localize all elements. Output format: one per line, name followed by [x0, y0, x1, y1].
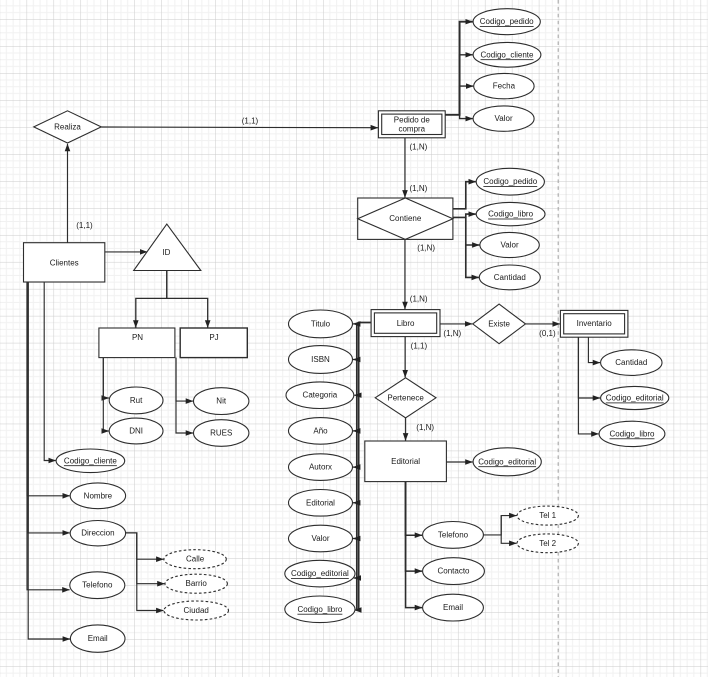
wire branch to Autorx [353, 466, 359, 468]
wire branch to Editorial attr [353, 502, 359, 504]
attribute Email of Clientes [70, 625, 125, 652]
svg-text:(1,N): (1,N) [443, 329, 461, 338]
wire Contiene to Codigo_libro [453, 214, 476, 217]
svg-text:RUES: RUES [210, 429, 232, 438]
svg-text:Tel 1: Tel 1 [539, 511, 556, 520]
svg-text:Codigo_libro: Codigo_libro [610, 429, 655, 438]
svg-text:Realiza: Realiza [54, 122, 81, 131]
wire Clientes to Nombre [27, 282, 70, 496]
svg-text:Valor: Valor [501, 241, 519, 250]
attribute Valor of Pedido [473, 106, 534, 131]
attribute DNI [109, 418, 163, 444]
wire Contiene to Codigo_pedido [453, 182, 476, 209]
attribute Email of Editorial [423, 594, 484, 621]
attribute Nit [194, 388, 249, 415]
wire Clientes to ID [105, 251, 147, 253]
wire Direccion to Ciudad [126, 533, 164, 611]
svg-text:Telefono: Telefono [82, 581, 113, 590]
attribute Fecha [474, 73, 534, 98]
key attribute Codigo_libro of Libro [285, 596, 355, 623]
wire Pedido to Contiene (1,N) [405, 138, 428, 198]
wire PN to DNI [103, 358, 109, 431]
wire Clientes to Telefono [27, 282, 70, 590]
entity PJ [180, 328, 247, 358]
svg-text:Barrio: Barrio [186, 579, 208, 588]
wire branch to Anio [353, 430, 359, 432]
wire Editorial to Email [406, 482, 423, 608]
multivalued attribute Calle [164, 550, 226, 569]
wire Pedido to Fecha [460, 86, 474, 115]
relationship Existe [473, 304, 526, 344]
wire branch to ISBN [353, 359, 359, 361]
key attribute Codigo_pedido of Contiene [476, 168, 544, 195]
wire Clientes to Email [28, 282, 70, 639]
wire PJ to Nit [176, 358, 193, 402]
svg-text:Codigo_cliente: Codigo_cliente [481, 50, 534, 59]
wire Pedido to Codigo_pedido [445, 22, 473, 115]
svg-text:Cantidad: Cantidad [615, 358, 647, 367]
svg-text:Año: Año [313, 426, 328, 435]
svg-text:Codigo_libro: Codigo_libro [488, 210, 533, 219]
svg-text:Email: Email [88, 634, 108, 643]
multivalued attribute Tel 1 [517, 506, 578, 525]
svg-text:compra: compra [398, 125, 425, 134]
svg-text:Calle: Calle [186, 555, 205, 564]
svg-text:Cantidad: Cantidad [494, 273, 526, 282]
multivalued attribute Barrio [165, 574, 227, 593]
attribute Nombre [70, 483, 125, 509]
svg-text:(1,1): (1,1) [76, 221, 93, 230]
svg-text:Codigo_pedido: Codigo_pedido [483, 177, 537, 186]
wire Libro to Existe (1,N) [440, 324, 472, 338]
entity Editorial [365, 441, 447, 482]
attribute ISBN [289, 346, 353, 374]
svg-text:Pertenece: Pertenece [387, 393, 424, 402]
wire Pertenece to Editorial (1,N) [406, 418, 435, 441]
svg-text:(1,N): (1,N) [410, 294, 428, 303]
wire Libro to Pertenece (1,1) [405, 337, 427, 378]
svg-text:Nit: Nit [216, 397, 227, 406]
attribute Telefono of Clientes [70, 572, 125, 599]
svg-text:Email: Email [443, 603, 463, 612]
multivalued attribute Ciudad [164, 601, 229, 620]
attribute Titulo [289, 310, 353, 338]
wire ID to PJ [167, 271, 208, 328]
multivalued attribute Tel 2 [517, 534, 578, 553]
svg-text:Inventario: Inventario [577, 319, 613, 328]
wire Clientes to Codigo_cliente [44, 282, 56, 461]
svg-text:Ciudad: Ciudad [184, 606, 209, 615]
svg-text:Titulo: Titulo [311, 319, 331, 328]
svg-text:Telefono: Telefono [438, 530, 469, 539]
attribute Cantidad of Inventario [601, 350, 662, 376]
svg-text:Codigo_libro: Codigo_libro [297, 605, 342, 614]
wire Direccion to Calle [126, 533, 164, 559]
identifier triangle ID [134, 224, 201, 270]
svg-text:Valor: Valor [311, 534, 329, 543]
page separator dashed line [557, 0, 559, 677]
svg-text:Fecha: Fecha [493, 82, 516, 91]
attribute Autorx [289, 454, 353, 481]
attribute Telefono of Editorial [423, 522, 484, 549]
wire Contiene to Valor [466, 217, 480, 245]
svg-text:ID: ID [162, 248, 170, 257]
svg-text:Valor: Valor [495, 114, 513, 123]
wire Existe to Inventario (0,1) [525, 324, 560, 338]
attribute Rut [109, 387, 163, 414]
attribute Editorial of Libro [289, 490, 353, 517]
attribute Anio [289, 418, 353, 445]
attribute Categoria [286, 382, 354, 409]
svg-text:PN: PN [132, 333, 143, 342]
wire Realiza to Pedido de compra (1,1) [101, 116, 378, 127]
wire branch to Titulo [353, 323, 359, 325]
key attribute Codigo_editorial of Editorial [473, 448, 541, 476]
svg-text:Codigo_pedido: Codigo_pedido [480, 17, 534, 26]
svg-text:Autorx: Autorx [309, 463, 332, 472]
wire branch to Valor attr [353, 538, 359, 540]
wire Editorial to Contacto [406, 482, 423, 571]
key attribute Codigo_pedido of Pedido [473, 9, 540, 35]
svg-text:Codigo_editorial: Codigo_editorial [291, 569, 349, 578]
svg-text:ISBN: ISBN [311, 355, 330, 364]
wire PJ to RUES [176, 358, 193, 433]
wire Contiene to Cantidad [466, 245, 479, 277]
attribute Cantidad of Contiene [479, 265, 540, 290]
wire Pedido to Codigo_cliente [460, 55, 473, 115]
svg-text:PJ: PJ [209, 333, 218, 342]
wire branch to Categoria [354, 394, 358, 396]
wire Telefono to Tel 1 [483, 516, 516, 535]
wire branch to Codigo_editorial attr [354, 577, 359, 579]
weak entity Pedido de compra [378, 111, 445, 138]
wire Clientes to Realiza (1,1) [68, 144, 94, 243]
key attribute Codigo_libro of Inventario [599, 421, 665, 446]
svg-text:Codigo_editorial: Codigo_editorial [606, 394, 664, 403]
svg-text:(1,N): (1,N) [416, 423, 434, 432]
svg-text:Pedido de: Pedido de [394, 115, 431, 124]
svg-text:(1,1): (1,1) [411, 341, 428, 350]
svg-text:Contacto: Contacto [437, 567, 470, 576]
wire Inventario to Codigo_editorial [578, 337, 600, 398]
wire Libro to Titulo trunk [357, 323, 371, 610]
key attribute Codigo_editorial of Libro [285, 560, 355, 587]
entity Libro (double rect) [371, 310, 440, 337]
key attribute Codigo_libro of Contiene [476, 202, 545, 225]
wire PN to Rut [103, 358, 109, 398]
attribute Contacto [423, 558, 485, 585]
wire ID to PN [136, 271, 167, 328]
wire Pedido to Valor [460, 115, 473, 119]
svg-text:Categoria: Categoria [303, 391, 338, 400]
svg-text:(1,1): (1,1) [242, 116, 259, 125]
wire Telefono to Tel 2 [501, 516, 516, 544]
relationship Contiene (boxed diamond) [358, 198, 453, 239]
attribute Valor of Contiene [480, 232, 539, 257]
svg-text:Editorial: Editorial [306, 498, 335, 507]
svg-text:Existe: Existe [488, 319, 510, 328]
wire Inventario to Cantidad [588, 337, 600, 362]
svg-text:Tel 2: Tel 2 [539, 539, 556, 548]
svg-text:Direccion: Direccion [81, 529, 114, 538]
svg-text:Contiene: Contiene [389, 214, 422, 223]
wire Editorial to Codigo_editorial [446, 461, 472, 463]
svg-text:(0,1): (0,1) [539, 329, 556, 338]
wire Contiene to Libro (1,N) [405, 239, 435, 309]
svg-text:(1,N): (1,N) [410, 184, 428, 193]
svg-text:Libro: Libro [397, 319, 415, 328]
attribute Valor of Libro [289, 525, 353, 552]
wire Editorial to Telefono [406, 482, 423, 536]
wire branch to Codigo_libro attr [354, 609, 359, 611]
entity PN [99, 328, 175, 358]
entity Inventario (double rect) [560, 310, 628, 337]
svg-text:DNI: DNI [129, 427, 143, 436]
key attribute Codigo_editorial of Inventario [601, 386, 669, 409]
entity Clientes [24, 243, 105, 282]
wire Inventario to Codigo_libro [578, 337, 598, 434]
key attribute Codigo_cliente of Pedido [473, 42, 541, 67]
wire Clientes to Direccion [28, 282, 70, 533]
key attribute Codigo_cliente of Clientes [56, 449, 125, 473]
wire Direccion to Barrio [126, 533, 165, 584]
relationship Realiza [34, 111, 101, 143]
svg-text:(1,N): (1,N) [410, 142, 428, 151]
svg-text:Codigo_cliente: Codigo_cliente [64, 456, 117, 465]
svg-text:Rut: Rut [130, 396, 143, 405]
svg-text:Editorial: Editorial [391, 457, 420, 466]
svg-text:(1,N): (1,N) [417, 243, 435, 252]
relationship Pertenece [375, 378, 436, 418]
attribute RUES [194, 420, 249, 447]
svg-text:Clientes: Clientes [50, 258, 79, 267]
svg-text:Codigo_editorial: Codigo_editorial [478, 457, 536, 466]
attribute Direccion [70, 521, 125, 546]
svg-text:Nombre: Nombre [84, 491, 113, 500]
